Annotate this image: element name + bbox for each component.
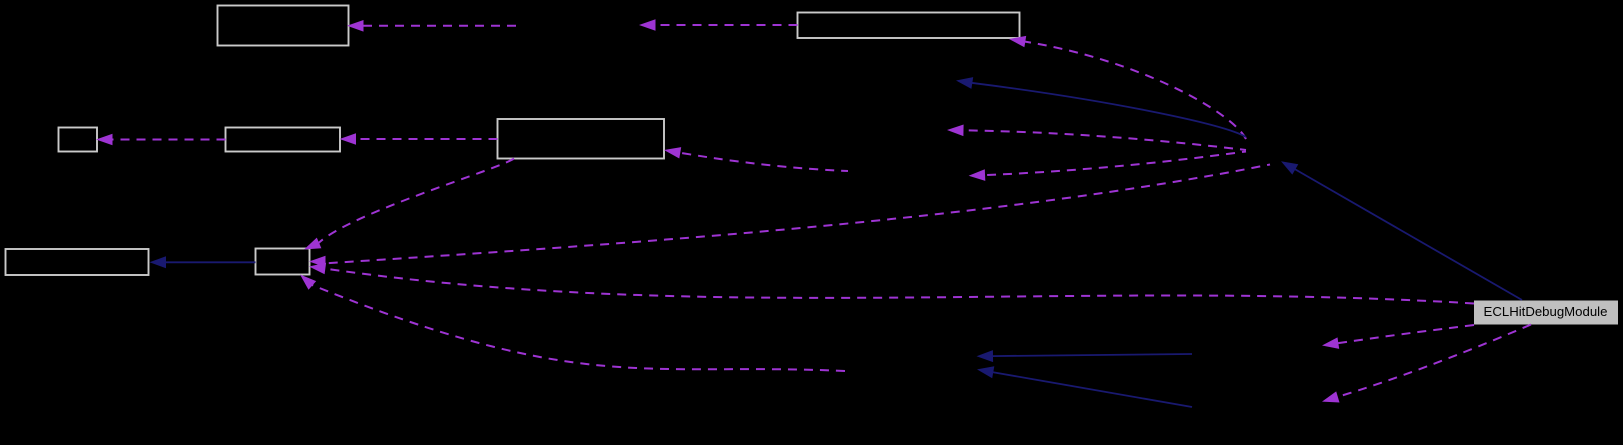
edge c: dashed, invisible node to node G bottom edge [300,275,845,372]
node D [226,128,341,152]
node F (bottom-left wide) [6,249,149,275]
node C (small left) [59,128,98,152]
node H ECLHitDebugModule (highlighted current node) [1475,301,1618,324]
edge E3: dashed, hub (invisible) to node B bottom-right corner [1009,36,1246,139]
svg-text:ECLHitDebugModule: ECLHitDebugModule [1484,304,1608,319]
node E (two-line) [498,119,665,159]
edge b: dashed, ECLHitDebugModule left to node G right edge (lower) [309,263,1474,304]
node A (top-left, two-line, invisible text) [218,6,349,46]
edge E6: dashed, hub to invisible node lower-left [969,152,1246,181]
edge E4: blue solid, hub to invisible node (inheritance) [956,77,1246,137]
edge D: dashed, ECLHitDebugModule bottom to invisible node X2 [1322,325,1531,403]
edge E5: dashed, hub to invisible node mid-left [947,125,1246,151]
edge DC: dashed, node D to node C [96,134,226,146]
edge ED: dashed, node E to node D [340,133,498,145]
edge e: dashed, node E bottom-left to node G top edge [304,159,514,250]
edge bF: blue solid, node G to node F (inheritance) [150,256,256,268]
edge E7: blue solid, ECLHitDebugModule to hub (inheritance) [1281,161,1522,300]
edge bB: blue solid, invisible X2 to invisible T1 [977,366,1192,407]
edge E8: dashed, invisible node to node E right edge [664,147,848,171]
edge C: dashed, ECLHitDebugModule bottom-left corner to invisible node X1 [1322,325,1474,349]
node B (top, wide) [798,13,1020,39]
edge bA: blue solid, invisible X1 to invisible T1 [977,350,1193,362]
edge a: dashed, hub bottom to node G right edge (upper) [309,165,1270,268]
node G (small hub) [256,249,310,275]
edge E2: dashed, node B to invisible node N1 [639,19,798,31]
edge E1: dashed, invisible node N1 to node A [347,20,516,32]
